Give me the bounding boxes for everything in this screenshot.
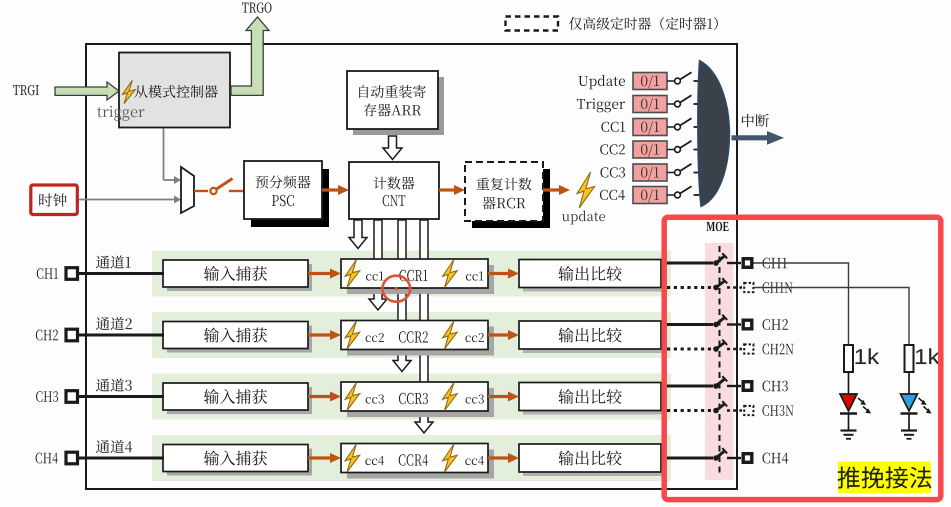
hollow bar CNT to CCR4 xyxy=(415,220,433,433)
cc1 flag label right xyxy=(466,271,483,280)
CH1N output label xyxy=(763,282,793,293)
wire resistor to LED R2/LED2(blue) xyxy=(908,372,910,394)
PSC box shadow xyxy=(251,169,329,227)
CNT label xyxy=(383,195,406,206)
input capture box ch2 xyxy=(163,322,308,349)
CCR2 capture bolt left xyxy=(345,321,360,349)
CCR3 box shadow xyxy=(347,388,494,417)
interrupt flag label Update xyxy=(578,75,625,89)
TRGI label xyxy=(13,85,39,95)
input capture box shadow ch4 xyxy=(167,449,312,476)
switch lever xyxy=(217,179,233,190)
wire output compare to CH2 switch xyxy=(661,323,713,326)
CH1 input pin xyxy=(66,268,78,280)
dotted wire switch to CH3N pin xyxy=(727,409,742,411)
LED emission arrows R2/LED2(blue) xyxy=(919,398,932,414)
wire output compare to CH1 switch xyxy=(661,262,713,265)
LED cathode bar R2/LED2(blue) xyxy=(901,412,918,415)
flag 0/1 box Trigger xyxy=(633,96,667,113)
dotted wire switch to CH1N pin xyxy=(727,286,742,288)
prescaler PSC box xyxy=(244,161,322,219)
CCR3 capture bolt left xyxy=(345,383,360,411)
TRGI input arrow xyxy=(55,82,119,100)
wire LED to ground R2/LED2(blue) xyxy=(908,414,910,431)
cc2 flag label right xyxy=(465,333,483,342)
wire slave controller to mux xyxy=(164,129,182,185)
CCR2 label xyxy=(399,331,428,342)
CH3N output label xyxy=(763,405,794,416)
arrow CCR1 to output compare xyxy=(488,269,519,279)
CH3N output pin dashed xyxy=(744,406,753,415)
CCR3 capture bolt right xyxy=(443,383,458,411)
flag switch CC4 xyxy=(667,186,702,198)
wire mux to switch xyxy=(194,190,208,192)
red highlight rectangle xyxy=(664,217,941,499)
CH2 output label xyxy=(762,319,788,330)
dotted wire output compare to CH2N switch xyxy=(667,348,711,351)
channel 1 green band xyxy=(152,251,671,297)
CH2N output pin dashed xyxy=(744,344,753,353)
output compare box shadow ch1 xyxy=(523,264,665,292)
dotted wire output compare to CH3N switch xyxy=(667,409,711,412)
CH2 output pin xyxy=(743,320,752,329)
interrupt flag label CC4 xyxy=(600,190,625,200)
CH3 output switch xyxy=(713,376,727,389)
arrow RCR to update bolt xyxy=(543,185,570,195)
PSC label 预分频器 xyxy=(255,175,310,188)
interrupt OR gate crescent xyxy=(698,61,730,207)
cc4 flag label left xyxy=(365,456,384,465)
CH4 output label xyxy=(762,453,788,464)
hollow arrow ARR to CNT xyxy=(383,136,402,160)
CH3N output switch xyxy=(713,401,727,413)
update label xyxy=(562,211,605,225)
LED cathode bar R1/LED1(red) xyxy=(840,412,857,415)
CCR4 capture bolt left xyxy=(345,444,360,472)
CNT label 计数器 xyxy=(373,177,414,190)
arrow input capture to CCR1 xyxy=(308,269,341,279)
channel 3 green band xyxy=(152,374,671,420)
RCR label line2 器RCR xyxy=(482,197,525,210)
CH1 output switch xyxy=(713,253,727,266)
ARR label line1 自动重装寄 xyxy=(359,85,426,98)
MOE pink band xyxy=(705,243,734,480)
hollow bar CNT to CCR2 xyxy=(369,220,387,310)
LED triangle R2/LED2(blue) xyxy=(901,394,918,411)
CH2 output switch xyxy=(713,315,727,328)
clock mux xyxy=(181,167,194,213)
CCR4 capture bolt right xyxy=(443,444,458,472)
flag switch CC3 xyxy=(667,164,702,176)
CH1N output pin dashed xyxy=(744,283,753,292)
output compare label ch3 输出比较 xyxy=(558,389,621,404)
CH4 output pin xyxy=(743,454,752,463)
cc3 flag label left xyxy=(366,394,384,403)
flag 0/1 box Update xyxy=(633,73,667,90)
output compare box ch1 xyxy=(519,260,661,288)
arrow PSC to CNT xyxy=(322,185,349,195)
red annotation circle xyxy=(383,276,411,302)
interrupt flag label Trigger xyxy=(577,98,625,112)
CH1 output label xyxy=(762,258,786,269)
input capture box ch1 xyxy=(163,260,308,287)
arrow CCR2 to output compare xyxy=(488,330,519,340)
CCR2 capture bolt right xyxy=(443,321,458,349)
interrupt flag label CC3 xyxy=(600,167,625,177)
channel label 通道1 xyxy=(96,255,131,268)
flag 0/1 box CC2 xyxy=(633,141,667,158)
PSC label xyxy=(272,195,294,206)
ARR label line2 存器ARR xyxy=(364,104,421,117)
LED emission arrows R1/LED1(red) xyxy=(858,398,871,414)
input capture label ch3 输入捕获 xyxy=(204,389,267,404)
slave mode controller bolt xyxy=(123,81,136,104)
flag 0/1 box CC4 xyxy=(633,187,667,204)
channel 2 green band xyxy=(152,312,671,358)
CH2N output switch xyxy=(713,340,727,352)
CCR3 label xyxy=(399,393,428,404)
CH4 input pin xyxy=(66,452,78,464)
interrupt arrow xyxy=(732,131,785,145)
CCR1 register box xyxy=(341,259,488,288)
dotted wire output compare to CH1N switch xyxy=(667,286,711,289)
channel label 通道2 xyxy=(96,317,132,330)
wire switch to PSC xyxy=(229,190,244,192)
ground symbol R1/LED1(red) xyxy=(841,431,857,439)
R2 value label 1k xyxy=(916,348,940,364)
channel label 通道4 xyxy=(96,440,132,453)
CCR4 label xyxy=(399,454,428,465)
resistor body R2/LED2(blue) xyxy=(905,345,914,372)
CH3 output pin xyxy=(743,382,752,391)
cc2 flag label left xyxy=(366,333,384,342)
input capture label ch2 输入捕获 xyxy=(204,328,267,343)
CH2N output label xyxy=(763,344,794,355)
flag switch CC2 xyxy=(667,141,702,153)
output compare box shadow ch4 xyxy=(523,448,665,476)
CH1N output switch xyxy=(713,278,727,290)
arrow CCR4 to output compare xyxy=(488,453,519,463)
input capture label ch4 输入捕获 xyxy=(204,451,267,466)
input capture box shadow ch2 xyxy=(167,326,312,353)
wire switch to CH1 pin xyxy=(727,262,741,264)
timer peripheral outer box xyxy=(86,44,737,489)
clock box 时钟 xyxy=(31,185,78,215)
slave mode controller label 从模式控制器 xyxy=(135,85,218,98)
slave mode controller box xyxy=(119,53,230,128)
arrow CCR3 to output compare xyxy=(488,392,519,402)
interrupt flag label CC2 xyxy=(600,144,625,154)
wire CH4 pin to input capture xyxy=(78,457,164,460)
CH2 input pin xyxy=(66,329,78,341)
cc4 flag label right xyxy=(465,456,484,465)
wire CH2 pin to input capture xyxy=(78,334,164,337)
wire switch to CH4 pin xyxy=(727,457,741,459)
CCR1 capture bolt left xyxy=(345,260,360,288)
switch pivot circle xyxy=(210,188,216,194)
hollow arrow CNT to CCR1 xyxy=(349,220,367,249)
CCR4 box shadow xyxy=(347,450,494,479)
interrupt label 中断 xyxy=(742,114,769,127)
LED triangle R1/LED1(red) xyxy=(840,394,857,411)
hollow bar CNT to CCR3 xyxy=(393,220,411,372)
wire output compare to CH3 switch xyxy=(661,385,713,388)
trigger label xyxy=(97,106,145,121)
CCR3 register box xyxy=(341,382,488,411)
wire CH3 pin to input capture xyxy=(78,395,164,398)
CH4 output switch xyxy=(713,448,727,461)
cc3 flag label right xyxy=(466,394,484,403)
ARR box shadow xyxy=(353,77,444,135)
CCR4 register box xyxy=(341,444,488,473)
cc1 flag label left xyxy=(366,271,383,280)
RCR label line1 重复计数 xyxy=(476,178,531,191)
CH4 pin label xyxy=(36,453,58,464)
input capture box ch4 xyxy=(163,445,308,472)
input capture box shadow ch1 xyxy=(167,264,312,291)
auto-reload ARR box xyxy=(347,71,438,129)
CCR1 capture bolt right xyxy=(443,260,458,288)
arrow CNT to RCR xyxy=(439,185,465,195)
output compare box shadow ch3 xyxy=(523,387,665,415)
input capture box shadow ch3 xyxy=(167,387,312,414)
output compare label ch1 输出比较 xyxy=(558,266,621,281)
RCR box shadow xyxy=(472,169,550,228)
arrow input capture to CCR3 xyxy=(308,392,341,402)
repetition counter RCR box xyxy=(465,162,543,221)
input capture label ch1 输入捕获 xyxy=(204,266,267,281)
wire LED to ground R1/LED1(red) xyxy=(848,414,850,431)
flag switch Update xyxy=(667,72,702,84)
input capture box ch3 xyxy=(163,383,308,410)
CCR2 box shadow xyxy=(347,327,494,356)
legend label 仅高级定时器（定时器1） xyxy=(569,17,718,30)
counter CNT box xyxy=(349,162,439,219)
CH1 pin label xyxy=(37,268,58,279)
R1 value label 1k xyxy=(856,348,880,364)
CCR1 label xyxy=(399,270,427,281)
channel label 通道3 xyxy=(96,378,132,391)
wire output compare to CH4 switch xyxy=(661,457,713,460)
CCR2 register box xyxy=(341,321,488,350)
flag 0/1 box CC1 xyxy=(633,119,667,136)
arrow input capture to CCR2 xyxy=(308,330,341,340)
CH1 output pin xyxy=(743,259,752,268)
push-pull label 推挽接法 highlight xyxy=(838,462,931,494)
interrupt flag label CC1 xyxy=(601,122,625,132)
MOE label xyxy=(706,222,728,231)
flag 0/1 box CC3 xyxy=(633,164,667,181)
wire CH1N to resistor R2 xyxy=(754,288,910,346)
output compare box ch2 xyxy=(519,321,661,349)
output compare label ch4 输出比较 xyxy=(558,451,621,466)
output compare box shadow ch2 xyxy=(523,325,665,353)
CH3 pin label xyxy=(36,391,58,402)
dotted wire switch to CH2N pin xyxy=(727,348,742,350)
ground symbol R2/LED2(blue) xyxy=(901,431,917,439)
TRGO output arrow xyxy=(231,17,269,95)
output compare box ch3 xyxy=(519,383,661,411)
wire switch to CH3 pin xyxy=(727,385,741,387)
flag switch CC1 xyxy=(667,118,702,130)
CH3 output label xyxy=(762,381,787,392)
CH3 input pin xyxy=(66,391,78,403)
push-pull label 推挽接法 xyxy=(838,466,932,488)
wire CH1 to resistor R1 xyxy=(754,263,849,345)
CH2 pin label xyxy=(36,330,58,341)
legend dashed box xyxy=(506,17,559,31)
output compare label ch2 输出比较 xyxy=(558,328,621,343)
wire CH1 pin to input capture xyxy=(78,272,164,275)
CCR1 box shadow xyxy=(347,265,494,294)
TRGO label xyxy=(242,2,272,12)
resistor body R1/LED1(red) xyxy=(844,345,853,372)
output compare box ch4 xyxy=(519,444,661,472)
update event bolt xyxy=(577,172,595,208)
MOE dashed line xyxy=(719,246,721,477)
arrow input capture to CCR4 xyxy=(308,453,341,463)
wire clock to mux xyxy=(79,196,181,204)
flag switch Trigger xyxy=(667,95,702,107)
wire resistor to LED R1/LED1(red) xyxy=(848,372,850,394)
channel 4 green band xyxy=(152,435,671,481)
wire switch to CH2 pin xyxy=(727,323,741,325)
